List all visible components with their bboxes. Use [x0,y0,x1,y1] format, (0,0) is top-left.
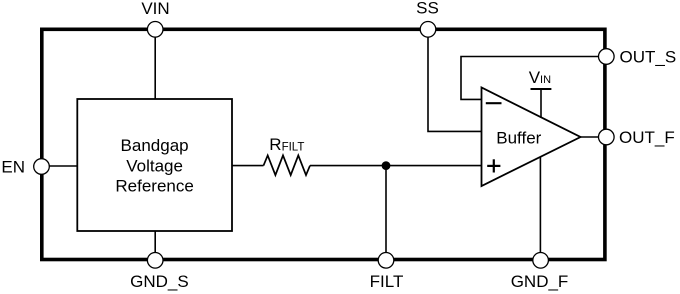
svg-text:Buffer: Buffer [496,129,541,148]
svg-text:Bandgap: Bandgap [121,136,189,155]
node FILT junction dot [382,161,391,170]
wire op-amp to GND_F pin [539,157,541,253]
svg-text:FILT: FILT [370,272,404,291]
wire FILT node to FILT pin [385,166,387,253]
wire bandgap box to resistor RFILT [232,165,264,167]
op-amp noninverting input plus sign [487,159,500,172]
wire VIN to bandgap box [154,33,156,99]
svg-text:Reference: Reference [115,177,193,196]
wire op-amp output to OUT_F pin [581,136,600,138]
svg-text:OUT_F: OUT_F [619,128,675,147]
pin VIN [141,0,169,37]
pin FILT [370,252,404,291]
pin GND_F [511,252,569,291]
svg-text:SS: SS [416,0,439,18]
pin OUT_F [599,128,675,147]
resistor RFILT [264,135,311,175]
pin OUT_S [599,48,677,67]
pin EN [1,157,49,176]
pin GND_S [130,252,189,291]
wire feedback OUT_S to op-amp inverting input [461,57,599,100]
op-amp U1 Buffer [482,88,581,187]
bandgap voltage reference block [77,99,232,231]
pin SS [416,0,439,37]
svg-text:GND_S: GND_S [130,272,189,291]
wire resistor to op-amp noninverting input (through FILT node) [310,165,482,167]
wire EN to bandgap box [43,165,77,167]
IC boundary box [42,29,605,259]
VIN power tap to op-amp [529,68,552,118]
svg-text:VIN: VIN [141,0,169,18]
wire bandgap box to GND_S pin [154,231,156,254]
svg-text:GND_F: GND_F [511,272,569,291]
svg-text:OUT_S: OUT_S [620,48,677,67]
op-amp inverting input minus sign [486,102,502,104]
svg-text:Voltage: Voltage [126,156,183,175]
wire SS pin to op-amp [428,33,482,131]
svg-text:EN: EN [1,157,25,176]
